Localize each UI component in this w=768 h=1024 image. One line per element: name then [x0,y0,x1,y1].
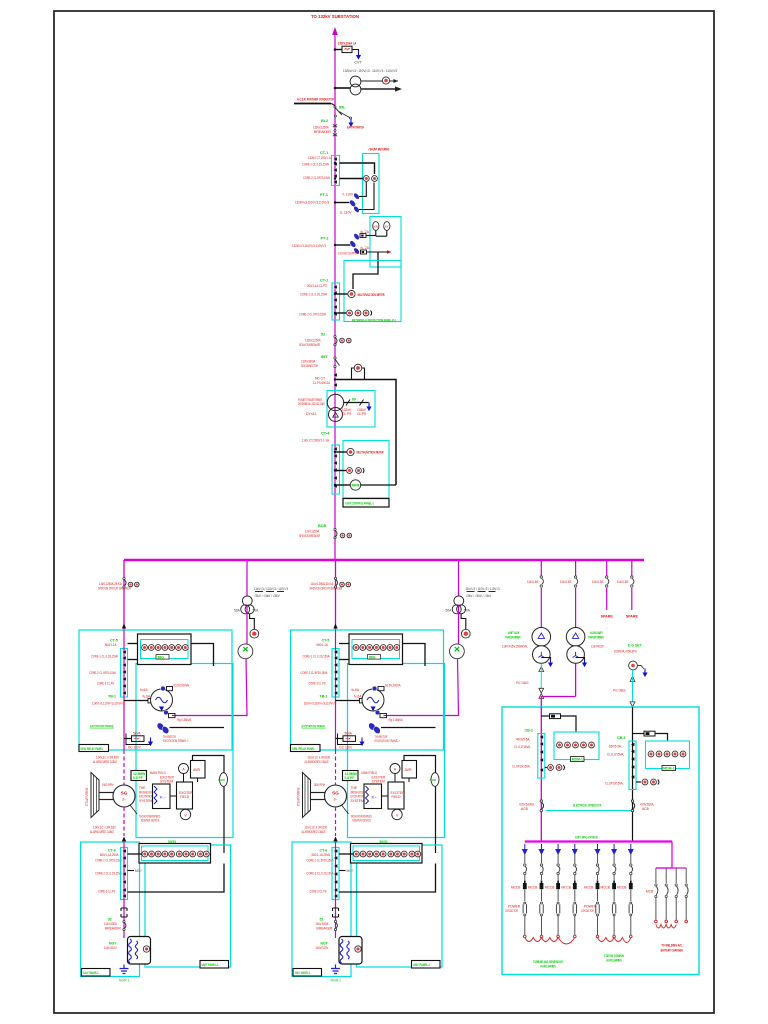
svg-text:132kV/√3 : 110V/√3 : 110V/√3 :: 132kV/√3 : 110V/√3 : 110V/√3 : 110V/√3 [343,69,397,73]
wire LA to earth [352,50,359,53]
auxiliary transformer T2 [566,628,585,647]
generator cable (dashed) [123,750,125,785]
current transformer CT-4 box [332,445,340,494]
svg-text:20/26MVA,132/11.5kV: 20/26MVA,132/11.5kV [298,402,326,406]
tariff meter [350,480,360,490]
incomer 2 riser [632,707,634,841]
CT-1 wire core 1 [340,163,375,174]
T1 cable (cyan) [540,664,542,694]
svg-text:630/5-5A,: 630/5-5A, [609,745,622,749]
unit feeder drop [123,560,125,630]
excitation panel box B [136,664,233,838]
svg-text:SPARE: SPARE [601,615,614,619]
PT-2 fuse upper [353,232,361,240]
svg-text:CORE-2 CL.5P20,15VA: CORE-2 CL.5P20,15VA [299,313,326,317]
wire to PT-1 [335,202,350,204]
svg-text:89L: 89L [339,106,346,110]
disconnector 89T [334,357,336,359]
generator protection panel box A [79,630,232,750]
svg-text:TB-1: TB-1 [108,695,116,699]
fuse F2 [644,731,655,736]
CT-5 wire row 1 [128,643,138,645]
relay circles row [142,645,148,651]
multifunction meter 2 [347,448,354,455]
svg-text:CONTACTOR: CONTACTOR [505,909,518,913]
svg-text:AVR: AVR [193,768,201,772]
exciter field block [177,782,193,809]
svg-text:CT-1: CT-1 [320,151,328,155]
PT branch riser [246,561,248,596]
svg-text:ACB: ACB [642,807,650,811]
circuit breaker BCB [334,528,336,530]
svg-text:MULTIFUNCTION METER: MULTIFUNCTION METER [357,451,384,455]
bus PT windings [242,596,252,606]
incomer 1 fuse tap [541,715,549,717]
connection wires exciter [183,774,185,783]
transformer neutral earth [366,403,371,412]
load break switch 2 [574,576,577,587]
svg-text:MDM-1: MDM-1 [572,758,583,762]
incoming ACSR line [294,103,331,105]
svg-text:11kV,1C x 3R,630: 11kV,1C x 3R,630 [93,826,116,830]
svg-text:0.8 PF: 0.8 PF [133,776,143,780]
svg-text:50/51: 50/51 [168,840,176,844]
multifunction meter [348,290,355,297]
svg-text:MFM: MFM [352,484,360,488]
LV feeders [523,844,527,938]
PT-2 fuse lower [361,250,367,254]
node: LA tap [334,48,337,51]
svg-text:200/1-1A,CL.PS: 200/1-1A,CL.PS [307,284,327,288]
ACB incomer 2 [631,800,633,802]
svg-text:EXCITATION TRANS.: EXCITATION TRANS. [90,725,114,729]
LBS drop 1 [540,561,542,576]
svg-text:METERING & PROTECTION PANEL P-: METERING & PROTECTION PANEL P-1 [352,318,396,323]
svg-text:CORE-3 CL.PS: CORE-3 CL.PS [97,682,115,686]
svg-text:CVT: CVT [354,61,362,65]
incomer 2 fuse tap [633,733,645,735]
svg-text:CORE-1 CL.0.2S,15VA: CORE-1 CL.0.2S,15VA [300,293,327,297]
arrow into panel [122,624,126,629]
T2 drop to interconnect [575,664,577,697]
T1 cable termination lower [539,694,544,699]
AVR box [191,761,206,779]
CVT secondary arrow 2 [361,88,400,90]
interlock line [546,810,632,812]
potential transformer PT-2 [349,240,357,249]
cable arcs group 2 [598,938,631,943]
svg-text:DC 110V: DC 110V [128,746,142,750]
CT on rectifier top [161,686,166,691]
steam turbine [91,773,99,818]
arrow into lower panel [122,837,126,842]
wire PT to panel right [170,727,225,729]
svg-text:√3kV / √3kV / √3kV: √3kV / √3kV / √3kV [254,594,280,598]
fuse F1 [550,714,561,719]
disconnector 89L [334,106,336,108]
CVT secondary arrow 1 [361,80,398,82]
MCB cable arcs [656,925,676,929]
svg-text:132kV,800A: 132kV,800A [301,360,316,364]
svg-text:DISCONNECTOR: DISCONNECTOR [301,364,318,368]
svg-text:1500 RPM: 1500 RPM [102,783,114,787]
svg-text:52: 52 [321,333,325,337]
svg-text:A.C.S.R. PANTHER CONDUCTOR: A.C.S.R. PANTHER CONDUCTOR [297,98,334,102]
svg-text:415V 3PH,4 W BUS: 415V 3PH,4 W BUS [575,836,598,840]
BCB aux contacts [340,533,345,538]
load break switch 4 [631,576,634,587]
svg-text:110V,AC SUPPLY: 110V,AC SUPPLY [338,252,359,256]
svg-text:SG: SG [121,791,128,796]
DG cable termination [630,677,635,682]
generator column line [123,630,125,750]
CT-6 wire row 2 [128,864,225,893]
svg-text:NGR: NGR [218,778,226,782]
svg-text:MCCB: MCCB [545,886,554,890]
svg-text:132kV/√3,110V/√3-110V/√3: 132kV/√3,110V/√3-110V/√3 [292,244,326,248]
CT-4 wire 1 [336,451,347,453]
svg-text:Rg 0.35kVA: Rg 0.35kVA [177,718,192,722]
CT-4 wire 3 [336,484,350,486]
svg-text:11kV/110V: 11kV/110V [104,946,117,950]
svg-text:CONTACTOR: CONTACTOR [581,909,594,913]
current transformer CT box incomer 2 [629,741,636,790]
current transformer CT-6 box [121,848,128,900]
svg-text:V: V [184,813,187,817]
unit circuit breaker [123,577,125,579]
breaker switch [123,920,125,922]
svg-text:600/1-1A,25VA: 600/1-1A,25VA [100,853,119,857]
T1 cable termination upper [539,667,544,672]
svg-text:Y, 110V: Y, 110V [342,193,354,197]
svg-text:MCCB: MCCB [601,886,610,890]
CT-2 wire to MF meter [336,293,348,295]
svg-text:CORE-1 CL.0.2S,15VA: CORE-1 CL.0.2S,15VA [302,163,329,167]
protection relays [347,310,353,316]
svg-text:89T: 89T [321,355,328,359]
svg-text:MCB: MCB [646,890,653,894]
earth switch branch [339,112,350,118]
svg-text:132kV CT,200/1-1A: 132kV CT,200/1-1A [308,156,333,160]
svg-text:KEEPER DEVICE: KEEPER DEVICE [141,819,160,823]
svg-text:11kV/415V: 11kV/415V [591,645,604,649]
svg-text:A: A [182,767,185,771]
breaker aux contacts [128,582,133,587]
earth arrow of LA [356,51,361,60]
HV side wire of transformer [336,380,396,486]
wire to meter panel 2 [655,734,668,742]
svg-text:fu,6A: fu,6A [143,695,151,699]
CT-3 ticks on main line [334,373,337,377]
svg-text:fu,6A: fu,6A [140,688,148,692]
tacho circle [220,773,228,787]
svg-text:PVC CABLE: PVC CABLE [613,689,626,693]
T2 neutral earth [576,658,585,661]
CT-1 wire core 2 [340,178,364,180]
svg-text:11kV SWGR-1: 11kV SWGR-1 [83,971,99,975]
svg-text:50A: 50A [234,609,241,613]
generator cable lower (dashed) [123,807,125,836]
generator PT pair [156,722,166,732]
LBS drop 2 [575,561,577,576]
surge capacitor [238,644,253,659]
svg-text:MCCB: MCCB [562,886,571,890]
svg-text:11kV,1250A,25 KA: 11kV,1250A,25 KA [99,582,122,586]
NGT windings (blue) [129,939,132,963]
label: AVR green box [131,771,147,781]
energy meter panel box [370,217,401,268]
svg-text:BREAKER: BREAKER [314,130,331,134]
current transformer CT-5 box [121,649,128,698]
NGR meter [143,946,149,952]
svg-text:CT-4: CT-4 [321,432,330,436]
svg-text:FIELD: FIELD [180,795,190,799]
svg-text:SYSTEM: SYSTEM [160,780,173,784]
capacitor voltage transformer windings [350,76,361,87]
svg-text:415V,630A,: 415V,630A, [640,803,654,807]
relay circles row 2 [142,851,148,857]
shunt meters [363,176,369,182]
svg-text:86G: 86G [158,655,165,659]
generator G1 [113,785,135,807]
svg-text:CL.PS,600/1A: CL.PS,600/1A [313,381,331,385]
neutral grounding transformer box [128,937,151,965]
svg-text:Δ, 110V: Δ, 110V [340,211,352,215]
turbine shaft [99,792,114,794]
CT-2 wire to protection relays [336,312,346,314]
tap changer wire [344,402,369,404]
svg-text:TURBINE AND GENERATOR: TURBINE AND GENERATOR [533,960,563,964]
meter V [180,809,190,819]
svg-text:PVC CABLE: PVC CABLE [516,681,529,685]
svg-text:CL.5P10/15VA,: CL.5P10/15VA, [605,782,624,786]
svg-text:MCCB: MCCB [584,886,593,890]
CT-5 wire row 2 [128,659,138,661]
DG cable (cyan) [632,670,634,707]
svg-text:MCCB: MCCB [528,886,537,890]
svg-text:MCCB: MCCB [617,886,626,890]
svg-text:CORE-2 CL.0.2S,15VA: CORE-2 CL.0.2S,15VA [95,872,123,876]
svg-text:D.G SET: D.G SET [628,644,642,648]
svg-text:MDM-2: MDM-2 [663,767,674,771]
meter panel 2 [646,741,690,769]
svg-text:MAIN FIELD: MAIN FIELD [150,771,166,775]
svg-text:50A: 50A [253,609,260,613]
CT ticks incomer 2 [631,743,634,747]
svg-text:STATION COMMON: STATION COMMON [604,954,624,958]
CT-6 wire row 1 [128,853,143,855]
svg-text:SF6/VCB BREAKER: SF6/VCB BREAKER [299,534,321,538]
incoming line arrow (magenta, up) [332,27,338,35]
CT ticks incomer 1 [540,735,543,739]
kWh kVArh meters [373,222,379,231]
11kV switchgear panel box C [81,842,140,977]
meter panel 1 [554,732,599,760]
svg-text:TRANSFORMER: TRANSFORMER [505,636,521,640]
unit lower column line [123,842,125,938]
metering panel box P2 [343,441,389,499]
svg-text:fu, 2A: fu, 2A [361,246,370,250]
wires around excitation transformer [124,738,132,740]
svg-text:ELECTRICAL INTERLOCK: ELECTRICAL INTERLOCK [573,804,602,808]
svg-text:11kV CT,2000/1-1-1A: 11kV CT,2000/1-1-1A [302,439,330,443]
svg-text:AUXILIARY: AUXILIARY [590,631,603,635]
lightning arrester LA1 [335,49,342,51]
earth arrow below fuse [148,738,153,747]
svg-text:11kV,LBS: 11kV,LBS [592,580,604,584]
DG switch [637,666,644,670]
svg-text:UNIT CONTROL PANEL-1: UNIT CONTROL PANEL-1 [346,501,375,506]
svg-text:ACB: ACB [521,807,529,811]
svg-text:SF6/VCB BREAKER: SF6/VCB BREAKER [299,343,321,347]
wire to excitation transformer [172,659,247,716]
diesel generator [629,661,638,670]
wire to meter panel 1 [561,716,577,732]
shunt metering panel box [363,154,380,214]
svg-text:CT-2: CT-2 [320,279,328,283]
svg-text:EARTH SWITCH: EARTH SWITCH [347,126,364,130]
svg-text:CB-3: CB-3 [617,736,625,740]
excitation rectifier circle [151,689,173,711]
PT meter [250,629,259,638]
generator unit 2 (duplicate of unit 1) [291,560,445,983]
11kV main bus [124,559,644,562]
load break switch 3 [606,576,609,587]
MCB branch riser [656,842,672,869]
svg-text:AL ARMOURED CABLE: AL ARMOURED CABLE [93,760,118,764]
svg-text:CL.PS: CL.PS [342,412,351,416]
LBS drop 4 (spare) [631,561,633,576]
svg-text:NGT: NGT [109,942,117,946]
svg-text:AUXILIARIES: AUXILIARIES [606,959,622,963]
svg-text:kW: kW [374,225,379,229]
label: UNIT PANEL box [200,961,229,969]
PT secondary wire [250,614,255,630]
meter A [179,764,189,774]
svg-text:DYn11: DYn11 [306,412,316,416]
svg-text:2000kVA,415V,3PH: 2000kVA,415V,3PH [614,650,637,654]
svg-text:52: 52 [108,918,112,922]
svg-text:EXCITATION TRANS.↗: EXCITATION TRANS.↗ [163,739,189,743]
CT-4 ticks [334,447,337,451]
svg-text:CORE-1 CL.5P20,15VA: CORE-1 CL.5P20,15VA [95,859,123,863]
svg-text:PT-2: PT-2 [321,237,329,241]
T1 neutral earth [541,658,550,661]
ACB incomer 1 [540,800,542,802]
load break switch 1 [540,576,543,587]
CT-6 ticks [123,849,126,853]
svg-text:TO WELDING A/C,: TO WELDING A/C, [661,944,682,948]
current transformer CT-1 box [332,156,340,186]
svg-text:5kVA: 5kVA [133,732,141,736]
CT wire to relay pair 1 [545,767,547,769]
power transformer TR1 box [327,391,375,428]
neutral CT loop [352,368,355,379]
CT wire to relay pair 2 [636,781,641,783]
svg-text:PT-1: PT-1 [320,193,328,197]
svg-text:11kV√3 / 110V√3 / 110V√3: 11kV√3 / 110V√3 / 110V√3 [254,587,288,591]
svg-text:415V,6300A,: 415V,6300A, [519,803,535,807]
svg-text:CORE-3 CL.PS: CORE-3 CL.PS [98,890,116,894]
415V LV bus [525,840,672,842]
potential transformer PT-1 [353,192,361,200]
svg-text:CORE-2 CL.5P20,15VA: CORE-2 CL.5P20,15VA [303,176,330,180]
svg-text:4000/5-5A,: 4000/5-5A, [516,738,530,742]
metering protection panel box P1 [344,261,401,322]
unit aux transformer T1 [532,628,551,647]
wire from energy meter panel down to MF meter [353,252,378,289]
wire to CVT [335,87,350,89]
label: GEN RELAY PANEL box [79,745,109,752]
incomer 1 riser [540,707,542,841]
svg-text:AL ARMOURED CABLE: AL ARMOURED CABLE [90,830,115,834]
breaker aux contacts [340,338,345,343]
isolating link [121,908,127,917]
label: 11kV GEN PANEL box [82,969,111,977]
wire to PT-2 [335,244,351,246]
excitation transformer fuse box [132,736,145,742]
svg-text:11kV,LBS: 11kV,LBS [617,580,629,584]
earth switch arrow [348,119,353,128]
svg-text:UNIT PANEL-1: UNIT PANEL-1 [202,963,219,967]
svg-text:CORE-2 CL.5P20,15VA: CORE-2 CL.5P20,15VA [89,671,117,675]
bus PT branch 1 [172,561,288,716]
svg-text:BATTERY CHARGER.: BATTERY CHARGER. [661,949,684,953]
svg-text:kV: kV [385,225,389,229]
svg-text:CORE-1 CL.0.2S,15VA: CORE-1 CL.0.2S,15VA [91,655,119,659]
svg-text:GEN. RELAY PANEL: GEN. RELAY PANEL [81,747,104,751]
protection relays 2 [347,468,353,474]
CT-4 wire 2 [336,470,346,472]
svg-text:SF6/VCB CIRCUIT BREAKER: SF6/VCB CIRCUIT BREAKER [98,587,131,591]
svg-text:CL.5P10/15VA,: CL.5P10/15VA, [512,765,531,769]
svg-text:N0 CT: N0 CT [315,377,326,381]
svg-text:11kV/√3,110V/√3,110V/√3: 11kV/√3,110V/√3,110V/√3 [92,702,125,706]
current transformer CT-2 box [332,283,340,320]
cable arcs group 1 [525,938,575,945]
svg-text:BREAKER: BREAKER [105,926,121,930]
main 132kV feeder line [334,30,336,560]
svg-text:132kV,10kA LA: 132kV,10kA LA [338,42,357,46]
svg-text:SYSTEM: SYSTEM [139,799,152,803]
svg-text:CL.0.2/15VA,: CL.0.2/15VA, [514,745,531,749]
svg-text:STEAM TURBINE: STEAM TURBINE [85,788,89,807]
label: MDM-1 [571,757,585,762]
svg-text:11kV,LBS: 11kV,LBS [527,580,539,584]
svg-text:TRANSFORMER: TRANSFORMER [588,636,604,640]
svg-text:UNIT AUX: UNIT AUX [508,631,520,635]
MCB feeders [655,868,658,923]
incomer interconnect [541,697,575,708]
svg-text:NGR-1: NGR-1 [119,979,130,983]
svg-text:K←: K← [160,795,167,800]
svg-text:MCCB: MCCB [511,886,520,890]
50/51 relay panel [139,844,211,864]
svg-text:SPARE: SPARE [626,615,639,619]
PT branch lower riser [246,606,248,645]
svg-text:89: 89 [352,398,356,402]
svg-text:11kV,LBS: 11kV,LBS [560,580,572,584]
node: CVT tap [334,87,337,90]
label: 86G [156,655,169,660]
svg-text:132kV/√3,110V/√3,110V/√3: 132kV/√3,110V/√3,110V/√3 [295,200,329,204]
svg-text:CL.0.2/15VA,: CL.0.2/15VA, [607,753,624,757]
rectifier output CT [164,710,169,715]
svg-text:AUXILIARIES: AUXILIARIES [540,965,556,969]
circuit breaker 52 [334,335,336,337]
svg-text:TO 132kV SUBSTATION: TO 132kV SUBSTATION [311,14,359,19]
transformer TR1 windings [327,394,343,410]
